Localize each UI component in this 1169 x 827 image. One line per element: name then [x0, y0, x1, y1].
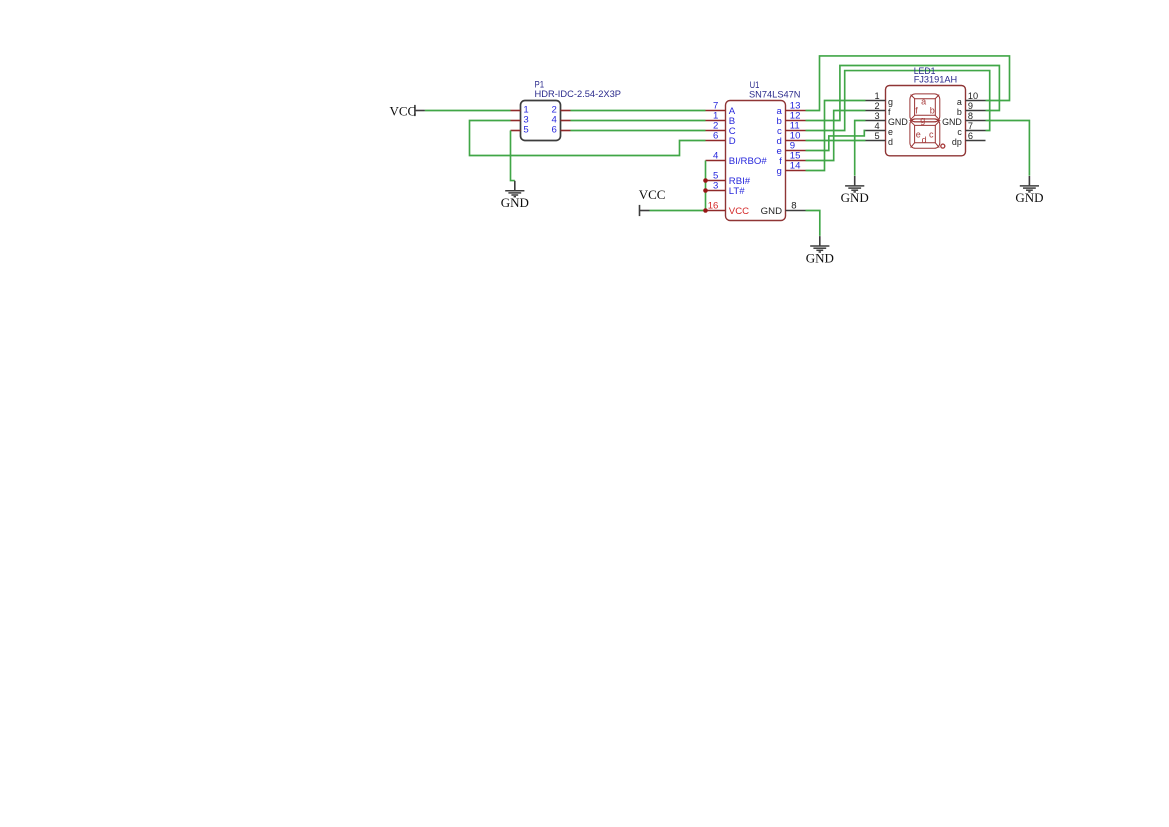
wire P1 pin 3 to U1 pin 6 (net D) [470, 121, 706, 156]
svg-text:6: 6 [713, 131, 718, 142]
svg-text:e: e [916, 129, 921, 139]
svg-text:2: 2 [874, 101, 879, 111]
svg-text:GND: GND [501, 195, 529, 210]
svg-text:b: b [930, 105, 935, 115]
svg-text:GND: GND [888, 117, 908, 127]
svg-text:4: 4 [713, 151, 719, 162]
svg-text:g: g [776, 166, 781, 177]
svg-text:b: b [957, 107, 962, 117]
U1 pin 15 (f) [779, 151, 805, 167]
power flag VCC (at U1 pin 16) [639, 187, 666, 216]
P1 pin 5 [511, 125, 529, 136]
svg-text:3: 3 [713, 181, 718, 192]
display LED1 body [886, 86, 966, 156]
svg-text:VCC: VCC [639, 187, 666, 202]
svg-text:GND: GND [841, 190, 869, 205]
wire P1 pin 2 to U1 pin 7 (net A) [571, 110, 706, 112]
wire U1 pin 10 to LED1 pin 5 (net d) [806, 140, 866, 142]
svg-text:SN74LS47N: SN74LS47N [749, 89, 801, 100]
U1 pin 7 (A) [706, 101, 736, 117]
svg-text:c: c [929, 129, 934, 139]
svg-text:HDR-IDC-2.54-2X3P: HDR-IDC-2.54-2X3P [535, 89, 622, 100]
svg-text:d: d [888, 137, 893, 147]
LED1 segment lines e (inner rect bottom square) [915, 125, 936, 142]
U1 pin 8 (GND) [761, 201, 806, 218]
wire VCC to U1 pin 16 [650, 210, 706, 212]
wire VCC to P1 pin 1 [425, 110, 511, 112]
wire U1 pin 11 to LED1 pin 7 (net c) [806, 71, 990, 131]
LED1 segment lines a (corner diagonals top square upper) [911, 95, 940, 99]
LED1 segment lines f (left inner rect edges top square) [915, 99, 936, 116]
svg-text:VCC: VCC [390, 103, 417, 118]
LED1 seven-segment glyph outline (bottom square) [910, 119, 940, 148]
LED1 segment lines b (corner diagonals top square lower) [910, 115, 939, 120]
U1 pin 5 (RBI#) [706, 171, 751, 187]
U1 pin 1 (B) [706, 111, 736, 127]
wire P1 pin 5 to GND [511, 131, 515, 181]
LED1 pin 6 (dp) [952, 131, 986, 147]
svg-text:5: 5 [874, 131, 879, 141]
U1 pin 4 (BI/RBO#) [706, 151, 768, 167]
LED1 seven-segment glyph outline (top square) [910, 94, 940, 122]
ground symbol GND (right of LED1) [1015, 176, 1043, 205]
svg-text:GND: GND [806, 250, 834, 265]
LED1 segment lines c (corner diagonals bottom square upper) [910, 121, 939, 126]
svg-text:4: 4 [874, 121, 879, 131]
U1 pin 3 (LT#) [706, 181, 746, 197]
svg-text:g: g [920, 115, 925, 125]
svg-text:8: 8 [968, 111, 973, 121]
U1 pin 14 (g) [776, 161, 805, 177]
U1 pin 16 (VCC) [706, 201, 750, 217]
LED1 pin 9 (b) [957, 101, 986, 117]
power flag VCC (left, net VCC) [390, 103, 425, 118]
U1 pin 9 (e) [776, 141, 805, 157]
U1 pin 11 (c) [777, 121, 805, 137]
LED1 segment lines d (corner diagonals bottom square lower) [911, 142, 940, 147]
svg-text:f: f [888, 107, 891, 117]
svg-text:9: 9 [968, 101, 973, 111]
svg-text:5: 5 [523, 125, 528, 136]
wire U1 pin 13 to LED1 pin 10 (net a) [806, 56, 1010, 111]
wire U1 pin 12 to LED1 pin 9 (net b) [806, 66, 1000, 121]
svg-text:a: a [921, 97, 926, 107]
svg-text:6: 6 [551, 125, 556, 136]
svg-text:14: 14 [790, 161, 801, 172]
svg-text:d: d [922, 135, 927, 145]
wire U1 pin 14 to LED1 pin 1 (net g) [806, 101, 866, 171]
U1 pin 13 (a) [776, 101, 805, 117]
LED1 pin 2 (f) [866, 101, 892, 117]
IC U1 body [726, 101, 786, 221]
svg-text:e: e [888, 127, 893, 137]
svg-text:1: 1 [874, 91, 879, 101]
svg-text:16: 16 [708, 201, 719, 212]
U1 pin 2 (C) [706, 121, 736, 137]
P1 pin 4 [551, 115, 570, 126]
wire P1 pin 4 to U1 pin 1 (net B) [571, 120, 706, 122]
svg-text:GND: GND [942, 117, 962, 127]
svg-text:LT#: LT# [729, 186, 745, 197]
LED1 pin 3 (GND) [866, 111, 908, 127]
U1 pin 10 (d) [776, 131, 805, 147]
svg-text:GND: GND [761, 206, 782, 217]
svg-text:6: 6 [968, 131, 973, 141]
wire P1 pin 6 to U1 pin 2 (net C) [571, 130, 706, 132]
svg-text:g: g [888, 97, 893, 107]
wire U1 pin 9 to LED1 pin 4 (net e) [806, 131, 866, 151]
svg-text:BI/RBO#: BI/RBO# [729, 156, 768, 167]
U1 pin 6 (D) [706, 131, 736, 147]
P1 pin 6 [551, 125, 570, 136]
LED1 pin 5 (d) [866, 131, 894, 147]
wire VCC bus up to U1 pin 4 (BI/RBO#) [705, 161, 707, 211]
svg-text:GND: GND [1015, 190, 1043, 205]
wire U1 pin 8 to GND [806, 211, 820, 236]
svg-text:c: c [957, 127, 962, 137]
wire U1 pin 15 to LED1 pin 2 (net f) [806, 111, 866, 161]
LED1 pin 7 (c) [957, 121, 985, 137]
connector P1 body [521, 101, 561, 141]
svg-text:dp: dp [952, 137, 962, 147]
LED1 pin 8 (GND) [942, 111, 985, 127]
svg-text:7: 7 [968, 121, 973, 131]
LED1 pin 1 (g) [866, 91, 894, 107]
svg-text:10: 10 [968, 91, 978, 101]
svg-text:f: f [915, 105, 918, 115]
ground symbol GND (below U1) [806, 236, 834, 265]
junction at U1 pin 3 (LT#) [703, 188, 708, 193]
svg-text:D: D [729, 136, 736, 147]
svg-text:VCC: VCC [729, 206, 749, 217]
svg-text:3: 3 [874, 111, 879, 121]
P1 pin 2 [551, 105, 570, 116]
svg-text:a: a [957, 97, 962, 107]
LED1 segment lines g (middle bar hexagon) [910, 119, 939, 122]
LED1 pin 10 (a) [957, 91, 986, 107]
LED1 decimal point o [941, 144, 945, 148]
P1 pin 1 [511, 105, 529, 116]
wire LED1 pin 8 to GND [986, 121, 1030, 176]
U1 pin 12 (b) [776, 111, 805, 127]
junction at U1 pin 16 (VCC) [703, 208, 708, 213]
junction at U1 pin 5 (RBI#) [703, 178, 708, 183]
ground symbol GND (below P1) [501, 181, 529, 210]
svg-text:8: 8 [791, 201, 796, 212]
svg-text:FJ3191AH: FJ3191AH [914, 75, 958, 86]
LED1 pin 4 (e) [866, 121, 894, 137]
ground symbol GND (below LED1 left) [841, 176, 869, 205]
wire LED1 pin 3 to GND [855, 121, 866, 176]
P1 pin 3 [511, 115, 529, 126]
